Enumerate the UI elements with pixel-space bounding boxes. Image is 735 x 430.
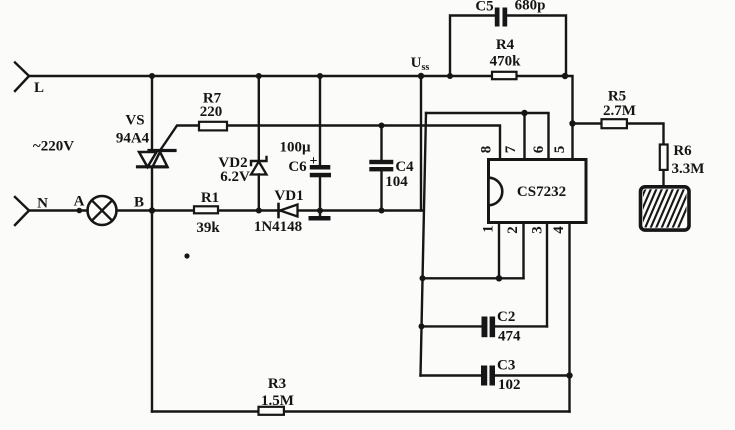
svg-text:102: 102: [498, 377, 521, 393]
svg-text:VD1: VD1: [274, 188, 303, 204]
svg-text:6: 6: [531, 145, 547, 153]
svg-text:C6: C6: [288, 159, 307, 175]
svg-text:C4: C4: [395, 159, 414, 175]
svg-text:2: 2: [505, 226, 521, 234]
svg-text:7: 7: [503, 145, 519, 153]
svg-text:1N4148: 1N4148: [254, 219, 302, 235]
svg-text:2.7M: 2.7M: [603, 103, 636, 119]
svg-text:L: L: [34, 80, 44, 96]
svg-text:R1: R1: [201, 190, 219, 206]
svg-text:A: A: [74, 194, 85, 210]
svg-text:470k: 470k: [490, 54, 522, 70]
svg-text:4: 4: [551, 226, 567, 234]
svg-text:~220V: ~220V: [33, 139, 74, 155]
svg-text:+: +: [310, 154, 318, 169]
svg-text:R6: R6: [673, 143, 692, 159]
svg-text:104: 104: [385, 174, 408, 190]
svg-text:680p: 680p: [515, 0, 546, 14]
svg-text:R4: R4: [496, 37, 515, 53]
svg-text:B: B: [134, 195, 144, 211]
svg-text:1.5M: 1.5M: [261, 393, 294, 409]
svg-text:VS: VS: [125, 113, 144, 129]
svg-text:220: 220: [200, 104, 223, 120]
svg-text:8: 8: [479, 146, 495, 154]
svg-text:5: 5: [552, 146, 568, 154]
svg-text:3: 3: [530, 226, 546, 234]
svg-text:N: N: [37, 196, 48, 212]
svg-text:R3: R3: [268, 376, 286, 392]
svg-text:C2: C2: [497, 309, 515, 325]
svg-text:100μ: 100μ: [279, 140, 311, 156]
svg-text:C3: C3: [497, 358, 515, 374]
svg-text:39k: 39k: [196, 220, 220, 236]
svg-text:3.3M: 3.3M: [672, 161, 705, 177]
svg-text:CS7232: CS7232: [517, 184, 566, 200]
svg-text:474: 474: [498, 329, 521, 345]
svg-text:1: 1: [481, 225, 497, 233]
svg-text:C5: C5: [475, 0, 493, 15]
svg-text:94A4: 94A4: [116, 131, 150, 147]
svg-text:6.2V: 6.2V: [220, 169, 250, 185]
